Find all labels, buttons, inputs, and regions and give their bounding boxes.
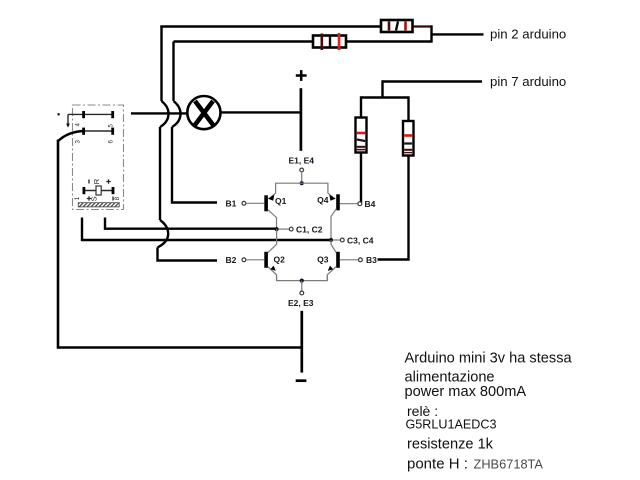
resistor R1 xyxy=(381,20,413,32)
wire hop over lamp wire (line 1) xyxy=(160,101,169,127)
transistor Q2 xyxy=(264,252,285,281)
node B2 xyxy=(226,255,265,265)
resistor VR1 xyxy=(356,118,367,153)
node E1,E4 terminal xyxy=(300,168,304,172)
wire R2 to junction xyxy=(347,40,432,42)
wire second horizontal to R2 xyxy=(174,40,314,42)
svg-text:power max 800mA: power max 800mA xyxy=(405,384,527,400)
relay pin 6 tick xyxy=(111,128,114,135)
wire top emitter rail xyxy=(276,183,328,188)
svg-text:B4: B4 xyxy=(365,199,376,209)
svg-text:C1, C2: C1, C2 xyxy=(296,224,323,234)
lamp L1 xyxy=(187,96,220,129)
svg-text:Q3: Q3 xyxy=(317,255,329,265)
relay pin 8 tick xyxy=(112,187,115,194)
wire relay pin5 to lamp xyxy=(131,112,188,114)
wire left bus vertical xyxy=(57,140,60,349)
wire down to VR2 xyxy=(407,96,409,121)
relay pin 5 tick xyxy=(111,111,114,118)
wire VR1 to B4 xyxy=(360,153,361,202)
relay coil line xyxy=(84,190,113,192)
svg-text:G5RLU1AEDC3: G5RLU1AEDC3 xyxy=(406,417,497,431)
wire net pin2 left vertical (upper) xyxy=(160,27,162,102)
svg-text:Arduino mini 3v ha stessa: Arduino mini 3v ha stessa xyxy=(405,351,573,367)
plus terminal sign xyxy=(296,70,307,81)
dot marker left of relay xyxy=(58,113,60,115)
svg-text:ponte H :: ponte H : xyxy=(407,456,468,473)
node B1 xyxy=(226,198,265,208)
resistor R2 xyxy=(313,33,346,50)
wire pin7 vertical drop xyxy=(381,80,383,97)
wire lamp to plus rail xyxy=(221,111,300,113)
svg-text:R: R xyxy=(92,178,101,184)
wire to pin 2 label xyxy=(432,33,484,35)
wire C3,C4 down to Q3 xyxy=(331,240,336,253)
svg-text:Q4: Q4 xyxy=(317,195,329,205)
node C3,C4 terminal xyxy=(333,235,374,245)
junction C1,C2 xyxy=(275,227,279,231)
svg-text:1: 1 xyxy=(74,196,81,200)
wire relay pin3 curve to left bus xyxy=(58,131,83,141)
wire net pin2 second vertical (upper) xyxy=(172,42,174,102)
wire bottom emitter rail xyxy=(277,276,328,281)
wire top horizontal to R1 xyxy=(160,25,381,27)
note text block xyxy=(405,351,573,473)
relay actuator arrowhead xyxy=(66,124,70,128)
wire coil stub to C3,C4 xyxy=(82,239,331,241)
svg-text:4: 4 xyxy=(75,122,82,126)
wire bottom bus horizontal xyxy=(58,346,302,349)
relay actuator arm xyxy=(67,114,69,124)
junction bottom rail xyxy=(300,279,304,283)
wire B1 horizontal xyxy=(171,201,217,203)
resistor VR2 xyxy=(403,121,414,156)
wire dark-red lead from R1 xyxy=(413,25,432,27)
transistor Q4 xyxy=(317,188,340,240)
transistor Q1 xyxy=(264,188,286,229)
relay contact 4-5 line xyxy=(68,113,113,115)
plus terminal bar xyxy=(300,88,303,151)
label minus lower xyxy=(112,197,113,201)
label plus lower xyxy=(87,196,91,200)
wire relay coil stub pin1 xyxy=(81,218,83,242)
node B4 xyxy=(340,199,376,209)
svg-text:C3, C4: C3, C4 xyxy=(347,235,374,245)
relay pin 4 tick xyxy=(82,111,85,118)
junction top rail xyxy=(300,181,304,185)
svg-text:Q1: Q1 xyxy=(275,196,287,206)
wire vertical to B2 hop xyxy=(159,127,161,220)
node E2,E3 terminal xyxy=(300,291,304,295)
wire vertical joining resistor outputs xyxy=(430,25,432,42)
wire vertical into B2 xyxy=(156,248,158,260)
wire coil stub to C1,C2 xyxy=(105,227,277,229)
svg-text:ZHB6718TA: ZHB6718TA xyxy=(474,456,544,471)
wire C1,C2 down to Q2 xyxy=(268,229,277,253)
relay pin 3 tick xyxy=(82,128,85,135)
svg-text:E1, E4: E1, E4 xyxy=(289,156,315,166)
node B3 xyxy=(340,255,377,265)
wire vertical into B1 xyxy=(171,127,173,201)
wire down to VR1 xyxy=(360,96,362,117)
wire VR2 down to B3 xyxy=(378,156,409,260)
svg-text:B2: B2 xyxy=(226,255,237,265)
wire to pin 7 label xyxy=(383,80,483,82)
transistor Q3 xyxy=(317,252,340,281)
wire to E2,E3 terminal xyxy=(301,281,303,291)
svg-text:8: 8 xyxy=(114,196,121,200)
svg-text:resistenze 1k: resistenze 1k xyxy=(407,437,494,453)
svg-text:E2, E3: E2, E3 xyxy=(288,298,314,308)
wire B2 horizontal xyxy=(156,259,217,261)
relay contact 3-6 line xyxy=(82,130,113,132)
wire pin7 split horizontal xyxy=(361,96,409,98)
svg-text:pin 7 arduino: pin 7 arduino xyxy=(490,74,566,89)
wire relay coil stub pin8 xyxy=(104,218,106,230)
node C1,C2 terminal xyxy=(279,224,323,234)
svg-text:5: 5 xyxy=(108,123,115,127)
svg-text:6: 6 xyxy=(108,139,115,143)
wire hop over C wires xyxy=(158,220,169,248)
svg-text:B1: B1 xyxy=(226,198,237,208)
relay coil body xyxy=(96,186,101,195)
wire hop over lamp wire (line 2) xyxy=(172,101,181,127)
label minus upper xyxy=(88,180,89,184)
relay pin 1 tick xyxy=(83,187,86,194)
label plus upper xyxy=(106,179,110,183)
svg-text:Q2: Q2 xyxy=(274,255,286,265)
junction C3,C4 xyxy=(329,238,333,242)
wire E1,E4 to rail xyxy=(301,172,303,183)
wire E2,E3 down to minus bus xyxy=(300,311,303,373)
minus terminal bar xyxy=(296,379,307,382)
svg-text:pin 2 arduino: pin 2 arduino xyxy=(490,27,566,42)
svg-text:3: 3 xyxy=(75,139,82,143)
svg-text:B3: B3 xyxy=(366,255,377,265)
relay mounting hatched bar xyxy=(78,203,119,207)
relay K1 outline xyxy=(73,105,124,210)
